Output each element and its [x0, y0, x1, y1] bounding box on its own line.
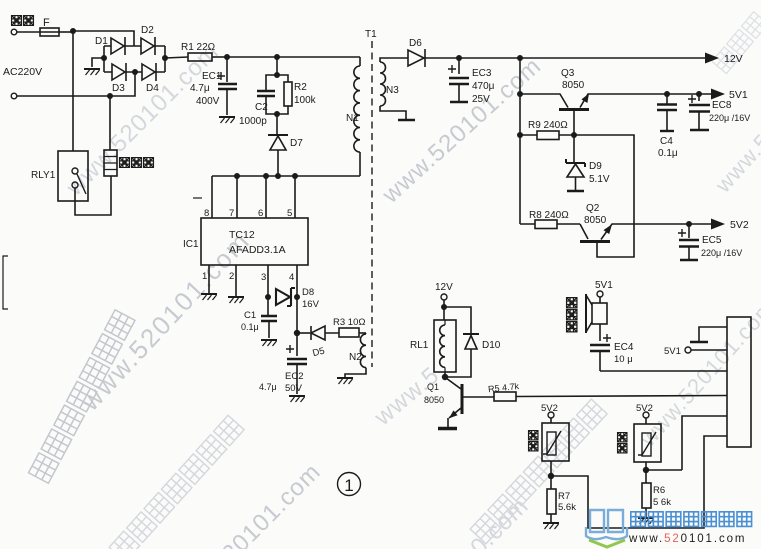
svg-text:R8 240Ω: R8 240Ω: [529, 210, 569, 221]
wire 300V rail: [227, 56, 360, 58]
svg-text:EC8: EC8: [712, 100, 732, 111]
svg-text:3: 3: [261, 272, 266, 283]
node base bus: [571, 132, 577, 138]
svg-text:EC4: EC4: [614, 342, 634, 353]
svg-text:5V2: 5V2: [730, 219, 749, 231]
node C2R2 rail tap: [274, 54, 280, 60]
node bus pin6: [263, 173, 269, 179]
diode D4: [135, 63, 165, 81]
wire base loop to Q2: [574, 135, 634, 257]
ground (C1): [261, 340, 277, 346]
wire: [17, 31, 40, 33]
ground (EC3, bar): [450, 101, 468, 104]
wire IC supply bus: [212, 175, 360, 177]
svg-text:16V: 16V: [302, 299, 320, 310]
svg-text:400V: 400V: [196, 96, 220, 107]
ground (R7): [543, 523, 559, 529]
node pin4 feedback: [294, 330, 300, 336]
diode D5: [297, 332, 310, 334]
node Q3 collector tap: [517, 91, 523, 97]
svg-text:470μ: 470μ: [472, 81, 495, 92]
node R9 left: [517, 132, 523, 138]
pin 1: [208, 265, 210, 293]
wire bridge right side: [164, 46, 166, 72]
svg-text:Q2: Q2: [586, 203, 600, 214]
svg-text:8050: 8050: [424, 395, 444, 405]
svg-text:D8: D8: [302, 287, 314, 298]
node bottom sensor tap: [548, 473, 554, 479]
diode D6: [408, 49, 459, 67]
svg-text:IC1: IC1: [183, 239, 199, 250]
svg-text:0.1μ: 0.1μ: [241, 322, 259, 332]
svg-text:0.1μ: 0.1μ: [658, 148, 678, 159]
wire R5 to connector: [516, 396, 727, 397]
resistor R8: [535, 220, 557, 229]
node bridge AC2: [132, 69, 138, 75]
svg-text:1000p: 1000p: [239, 116, 267, 127]
zener D8: [265, 294, 271, 300]
node 12V tap: [517, 55, 523, 61]
svg-text:220μ /16V: 220μ /16V: [701, 248, 742, 258]
node C2R2 top: [274, 72, 280, 78]
svg-text:8050: 8050: [584, 215, 607, 226]
ground (N3, bar): [398, 119, 415, 122]
svg-text:N3: N3: [386, 85, 399, 96]
resistor R2: [277, 75, 288, 114]
logo text 家电维修资料网: [631, 512, 752, 527]
wire connector to lid sensor: [682, 416, 727, 470]
resistor R1: [188, 53, 212, 61]
12V output arrow: [705, 53, 719, 64]
svg-text:12V: 12V: [724, 53, 743, 65]
wire: [276, 57, 278, 75]
svg-text:4.7μ: 4.7μ: [259, 382, 277, 392]
svg-text:6: 6: [258, 208, 263, 219]
capacitor EC3: [458, 58, 460, 74]
wire: [444, 307, 471, 334]
svg-text:RLY1: RLY1: [31, 170, 56, 181]
ground (pin 2): [228, 297, 244, 303]
heater 发热盘: [104, 150, 117, 176]
diode D10: [463, 333, 479, 335]
svg-text:C1: C1: [244, 310, 256, 321]
node R1 output: [224, 54, 230, 60]
AC input terminal bottom: [11, 93, 17, 99]
ground (N2): [337, 378, 353, 384]
ground (C4, bar): [660, 130, 674, 132]
svg-text:2: 2: [229, 271, 234, 282]
logo book icon: [586, 510, 627, 539]
zener D9: [573, 135, 575, 163]
svg-text:T1: T1: [365, 29, 377, 40]
connector block (to control board): [727, 317, 751, 447]
transistor Q1: [446, 378, 461, 389]
svg-text:www.520101.com: www.520101.com: [61, 38, 225, 202]
svg-text:EC5: EC5: [702, 235, 722, 246]
pin 7: [236, 176, 238, 218]
capacitor EC4: [599, 324, 601, 341]
pin 3: [267, 265, 269, 316]
capacitor C4: [666, 94, 668, 104]
svg-text:D4: D4: [146, 83, 159, 94]
wire: [359, 332, 366, 334]
svg-text:D3: D3: [112, 83, 125, 94]
diode D3: [104, 63, 135, 81]
capacitor EC1: [226, 57, 228, 82]
pin 2: [235, 265, 237, 296]
svg-text:12V: 12V: [435, 282, 453, 293]
pin 6: [265, 176, 267, 218]
svg-text:C4: C4: [660, 136, 673, 147]
figure number 1: [338, 473, 361, 496]
wire connector to bottom sensor: [551, 436, 727, 528]
ground (R6): [638, 518, 654, 524]
capacitor EC5: [688, 224, 690, 238]
svg-text:R9 240Ω: R9 240Ω: [528, 120, 568, 131]
5V1 output arrow: [711, 89, 725, 100]
svg-text:5V1: 5V1: [595, 280, 613, 291]
diode D1: [104, 37, 134, 55]
diode D2: [134, 37, 165, 55]
svg-text:EC2: EC2: [285, 371, 303, 382]
node C2R2 bottom: [274, 111, 280, 117]
svg-text:www.52: www.52: [710, 119, 761, 198]
svg-text:R3 10Ω: R3 10Ω: [333, 317, 365, 328]
resistor R7: [547, 489, 556, 514]
wire neutral: [17, 72, 135, 96]
wire bridge left side: [103, 46, 105, 72]
wire connector pin1 to ground: [699, 327, 727, 341]
wire EC4 to connector: [600, 370, 727, 372]
svg-text:EC1: EC1: [202, 71, 222, 82]
node C4 tap: [664, 91, 670, 97]
svg-text:D10: D10: [482, 340, 501, 351]
resistor R9: [537, 131, 559, 140]
wire 5V1 rail: [661, 93, 712, 95]
node lid sensor tap: [643, 467, 649, 473]
pin 5: [294, 176, 296, 218]
ground (EC8, bar): [690, 129, 709, 131]
capacitor C2: [266, 75, 277, 114]
relay coil RL1: [443, 307, 445, 320]
label 蜂鸣器: [567, 298, 577, 332]
label 发热盘: [120, 158, 154, 168]
transistor Q2: [580, 224, 588, 239]
diode D7: [268, 134, 288, 136]
node relay top: [441, 304, 447, 310]
svg-text:EC3: EC3: [472, 68, 492, 79]
wire 12V branch down: [519, 58, 521, 224]
node EC5 tap: [686, 221, 692, 227]
svg-text:D1: D1: [95, 36, 108, 47]
ground (primary, bridge negative): [84, 69, 100, 75]
pin 8: [211, 176, 213, 218]
label 磁钢 (magnet): [12, 16, 34, 26]
transformer winding N2: [360, 334, 366, 368]
transformer T1 core (dashed): [371, 41, 373, 367]
svg-text:5V1: 5V1: [729, 89, 748, 101]
wire relay to heater: [75, 176, 111, 215]
svg-text:D2: D2: [141, 25, 154, 36]
svg-text:R6: R6: [653, 485, 665, 496]
resistor R5: [494, 392, 516, 401]
svg-text:R1 22Ω: R1 22Ω: [181, 42, 216, 53]
svg-text:C2: C2: [255, 102, 268, 113]
svg-text:RL1: RL1: [410, 340, 429, 351]
node EC8 tap: [696, 91, 702, 97]
AC input terminal top: [11, 29, 17, 35]
svg-text:N2: N2: [349, 352, 362, 363]
svg-text:D7: D7: [290, 138, 303, 149]
resistor R6: [642, 483, 651, 508]
svg-text:1: 1: [344, 476, 353, 495]
svg-text:50V: 50V: [285, 383, 303, 394]
svg-text:D9: D9: [589, 161, 602, 172]
svg-text:D6: D6: [409, 38, 422, 49]
5V2 output arrow: [711, 219, 725, 230]
svg-text:25V: 25V: [472, 94, 490, 105]
node bridge positive: [162, 55, 168, 61]
node bus D7: [275, 173, 281, 179]
node junction heater tap: [107, 93, 113, 99]
wire down to relay RLY1: [72, 31, 74, 151]
resistor R3: [339, 328, 359, 337]
capacitor EC2: [296, 333, 298, 356]
node bus pin7: [234, 173, 240, 179]
svg-text:220μ /16V: 220μ /16V: [709, 113, 750, 123]
wire: [165, 57, 188, 58]
node relay bottom: [442, 374, 448, 380]
svg-text:8: 8: [204, 208, 209, 219]
wire to bridge AC1: [73, 31, 134, 46]
svg-text:5V1: 5V1: [664, 346, 681, 357]
svg-text:4.7μ: 4.7μ: [190, 83, 210, 94]
ground (EC5, bar): [680, 259, 698, 261]
left margin bracket: [3, 256, 8, 309]
node bridge negative: [101, 55, 107, 61]
svg-text:AFADD3.1A: AFADD3.1A: [229, 244, 286, 256]
tick mark: [193, 197, 202, 199]
wire to primary ground: [92, 58, 104, 67]
wire: [212, 56, 227, 58]
svg-text:5 6k: 5 6k: [653, 497, 671, 508]
relay RLY1 contact: [58, 151, 88, 201]
capacitor C1: [261, 316, 277, 321]
svg-text:5.1V: 5.1V: [589, 174, 610, 185]
fuse F: [40, 28, 59, 36]
svg-text:1: 1: [202, 271, 207, 282]
svg-text:D5: D5: [311, 346, 325, 360]
svg-text:R2: R2: [294, 82, 307, 93]
transformer winding N1: [359, 57, 361, 66]
wire: [276, 114, 278, 135]
ground (connector, bar): [690, 341, 708, 343]
svg-text:www.520101.com: www.520101.com: [628, 533, 746, 545]
wire: [59, 31, 73, 33]
IC U1 AFADD3.1A: [201, 218, 308, 265]
svg-text:7: 7: [229, 208, 234, 219]
svg-text:Q3: Q3: [561, 68, 575, 79]
ground (EC2): [289, 396, 305, 402]
node D6 output: [456, 55, 462, 61]
svg-text:www.520101.com: www.520101.com: [635, 295, 761, 452]
node junction fuse output: [70, 28, 76, 34]
svg-text:5.6k: 5.6k: [558, 502, 576, 513]
svg-text:4: 4: [289, 272, 294, 283]
ground (pin 1): [201, 294, 217, 300]
svg-text:TC12: TC12: [229, 229, 255, 241]
svg-text:Q1: Q1: [427, 382, 439, 392]
svg-text:8050: 8050: [562, 80, 585, 91]
pin 4: [296, 265, 298, 333]
capacitor EC8: [698, 94, 700, 101]
wire 12V rail: [459, 57, 706, 59]
svg-text:100k: 100k: [294, 95, 317, 106]
transistor Q3: [520, 94, 568, 108]
svg-text:10 μ: 10 μ: [614, 354, 633, 365]
node bus pin5: [292, 173, 298, 179]
svg-text:5: 5: [287, 208, 292, 219]
svg-text:AC220V: AC220V: [3, 66, 42, 78]
svg-text:N1: N1: [346, 113, 359, 124]
ground (EC1): [219, 117, 235, 123]
svg-text:R7: R7: [558, 491, 570, 502]
transformer winding N3: [380, 58, 408, 62]
svg-text:www.520101.com: www.520101.com: [377, 52, 547, 209]
ground (Q1 emitter, bar): [438, 427, 457, 430]
ground (D9, bar): [567, 190, 584, 193]
